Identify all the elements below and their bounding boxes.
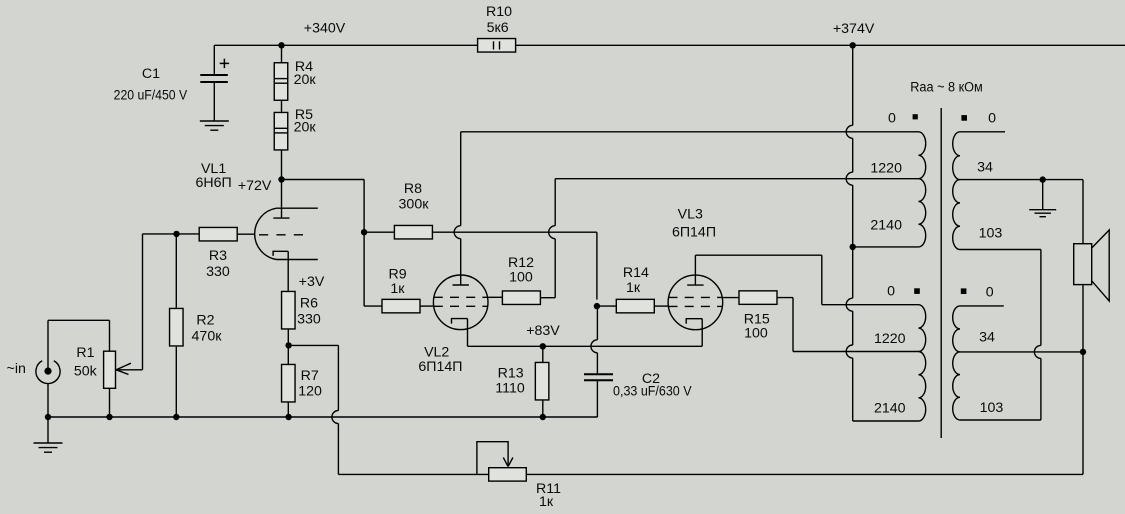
svg-text:0: 0 (887, 284, 895, 300)
resistor R4 (274, 45, 288, 100)
wire VL2 screen to R12 (488, 296, 503, 298)
inductor lower secondary winding (953, 306, 1083, 420)
wire B+ to lower primary 2140 (852, 247, 854, 298)
wire B+ to upper primary 2140 (853, 246, 919, 248)
wire speaker column (1082, 285, 1084, 352)
svg-text:0: 0 (888, 111, 896, 127)
node transformer B+ junction (850, 244, 856, 250)
svg-text:1к: 1к (390, 281, 405, 297)
svg-text:103: 103 (979, 226, 1003, 242)
inductor upper primary winding (919, 132, 926, 247)
wire R15 to transformer tap 1220 (lower) (777, 297, 793, 299)
node jack-ground (45, 414, 51, 420)
wire R8 to VL3 grid column (432, 231, 597, 233)
node VL1 cathode divider (285, 342, 291, 348)
wire VL2 cathode to +83V line (467, 319, 469, 347)
svg-text:34: 34 (977, 160, 993, 176)
wire jack to R1 (48, 319, 110, 321)
transformer core (940, 108, 942, 438)
svg-text:R2: R2 (196, 313, 214, 329)
node speaker / feedback junction (1080, 349, 1086, 355)
svg-text:R6: R6 (300, 296, 318, 312)
svg-text:330: 330 (206, 264, 230, 280)
svg-text:1к: 1к (539, 494, 554, 510)
svg-text:20к: 20к (294, 119, 317, 135)
svg-text:6П14П: 6П14П (672, 225, 716, 241)
resistor R5 (274, 100, 288, 179)
wire +340V/+374V top supply rail (214, 44, 1125, 46)
wire VL3 anode to output transformer (0) (694, 255, 696, 275)
svg-text:+374V: +374V (833, 21, 875, 37)
svg-text:R1: R1 (76, 345, 94, 361)
svg-text:50k: 50k (74, 364, 98, 380)
resistor R10 (478, 39, 516, 53)
svg-text:R7: R7 (301, 368, 319, 384)
resistor R7 (282, 345, 296, 417)
svg-text:103: 103 (980, 400, 1004, 416)
svg-text:1220: 1220 (870, 161, 902, 177)
svg-text:R9: R9 (389, 266, 407, 282)
wire upper secondary 103 to lower secondary 103 (1040, 250, 1042, 346)
wire feedback from secondary to R11 (1082, 352, 1084, 475)
resistor R2 (170, 234, 184, 417)
svg-text:1110: 1110 (495, 381, 525, 397)
resistor R6 (282, 291, 296, 345)
svg-text:6П14П: 6П14П (418, 359, 462, 375)
resistor R14 (597, 299, 668, 313)
svg-text:100: 100 (744, 325, 768, 341)
svg-text:120: 120 (298, 383, 322, 399)
svg-text:100: 100 (509, 270, 533, 286)
svg-text:34: 34 (979, 330, 995, 346)
wire VL3 cathode to +83V line (701, 319, 703, 347)
connector input jack (36, 320, 60, 417)
svg-text:1к: 1к (626, 280, 641, 296)
node +83V (540, 343, 546, 349)
capacitor C2 (584, 306, 613, 417)
resistor R15 (739, 291, 777, 305)
tube VL1 (half triode 6Н6П) (255, 180, 318, 291)
speaker (1074, 230, 1110, 301)
node VL3 grid coupling (594, 303, 600, 309)
svg-text:R10: R10 (486, 4, 512, 20)
svg-text:C1: C1 (142, 66, 160, 82)
svg-text:+3V: +3V (299, 274, 325, 290)
node grid network junction (173, 231, 179, 237)
svg-text:0: 0 (988, 111, 996, 127)
svg-text:6Н6П: 6Н6П (195, 175, 231, 191)
svg-text:R13: R13 (498, 366, 524, 382)
capacitor C1 (200, 45, 229, 121)
svg-text:330: 330 (297, 312, 321, 328)
svg-text:+340V: +340V (304, 21, 346, 37)
wire VL2 anode to output transformer (0) (460, 132, 462, 226)
svg-text:~in: ~in (7, 361, 26, 377)
ground (secondary) (1029, 180, 1056, 217)
svg-text:1220: 1220 (874, 331, 906, 347)
inductor lower primary winding (919, 305, 926, 421)
node R13-ground (540, 414, 546, 420)
resistor R13 (535, 346, 549, 417)
svg-text:300к: 300к (399, 196, 430, 212)
node secondary ground tap (1040, 176, 1046, 182)
svg-text:220 uF/450 V: 220 uF/450 V (114, 88, 188, 104)
node top rail / C1-R4 junction (278, 42, 284, 48)
svg-text:470к: 470к (192, 329, 223, 345)
svg-text:Raa ~ 8 кОм: Raa ~ 8 кОм (910, 80, 983, 96)
potentiometer R11 (477, 442, 526, 481)
wire +374V to transformer centre (852, 45, 854, 125)
svg-text:R14: R14 (623, 265, 649, 281)
ground (input) (34, 417, 63, 452)
svg-text:R8: R8 (404, 181, 422, 197)
potentiometer R1 (104, 351, 143, 417)
wire R1 wiper to grid node (142, 234, 144, 370)
wire VL1 anode to R8/R9 column (282, 179, 365, 181)
wire +83V line (468, 345, 703, 347)
resistor R9 (364, 299, 433, 313)
wire upper secondary 34 to speaker (1082, 180, 1084, 244)
node R2-ground (173, 414, 179, 420)
tube VL2 (pentode 6П14П) (433, 275, 488, 330)
svg-text:0,33 uF/630 V: 0,33 uF/630 V (613, 383, 692, 399)
resistor R3 (177, 227, 255, 241)
svg-text:+83V: +83V (526, 323, 560, 339)
svg-text:0: 0 (986, 285, 994, 301)
ground (C1) (200, 121, 229, 130)
svg-text:VL3: VL3 (678, 207, 703, 223)
wire VL3 screen to R15 (723, 297, 740, 299)
node +374V rail junction (850, 42, 856, 48)
wire cathode node to feedback R11 (289, 344, 339, 346)
wire ground bus (48, 416, 598, 418)
svg-text:R3: R3 (209, 248, 227, 264)
node +72V VL1 anode junction (278, 176, 284, 182)
svg-text:2140: 2140 (874, 400, 906, 416)
node R1-ground (106, 414, 112, 420)
resistor R12 (502, 291, 540, 305)
tube VL3 (pentode 6П14П) (668, 275, 723, 330)
svg-text:20к: 20к (294, 72, 317, 88)
svg-text:+72V: +72V (238, 178, 272, 194)
resistor R8 (364, 225, 432, 239)
node R8 tap (361, 229, 367, 235)
inductor upper secondary winding (953, 132, 1083, 250)
svg-text:2140: 2140 (870, 217, 902, 233)
node R7-ground (285, 414, 291, 420)
wire R12 to transformer tap 1220 (540, 297, 555, 299)
svg-text:5к6: 5к6 (487, 20, 509, 36)
